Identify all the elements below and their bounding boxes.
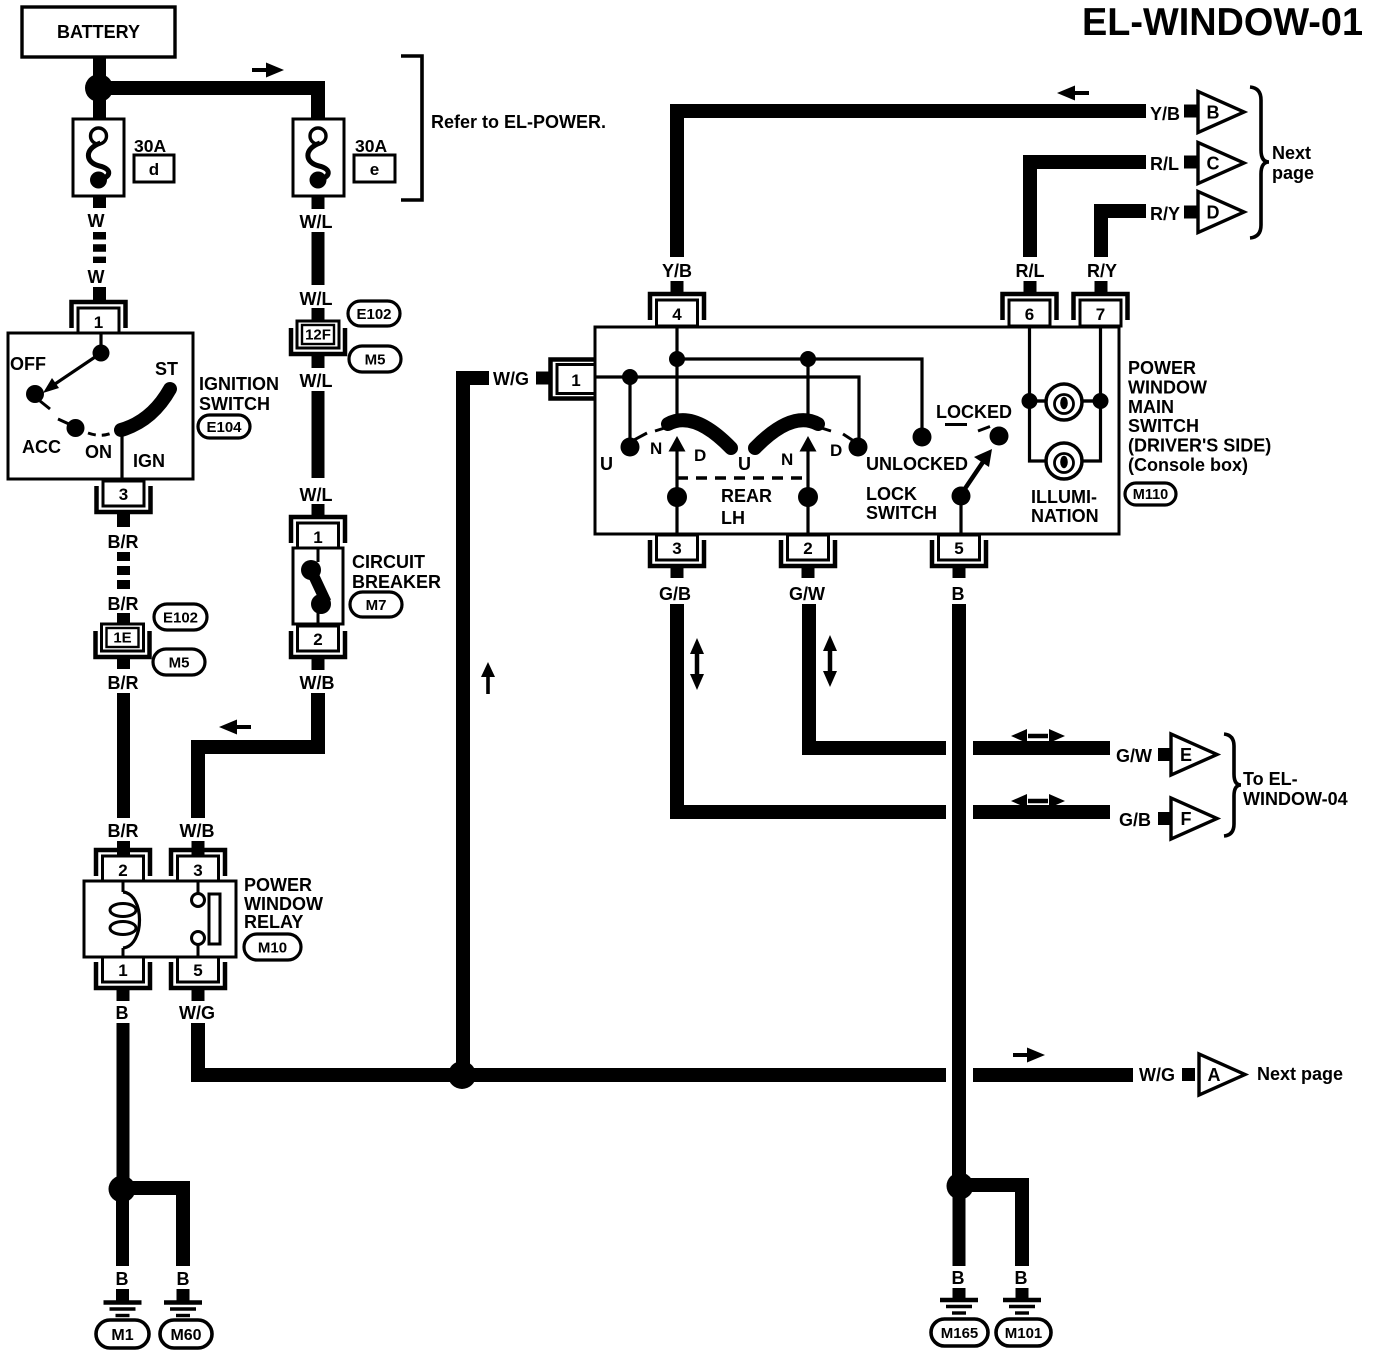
svg-text:IGNITION: IGNITION — [199, 374, 279, 394]
svg-text:POWER: POWER — [1128, 358, 1196, 378]
label W/L — [300, 289, 333, 309]
svg-text:M101: M101 — [1005, 1325, 1043, 1342]
stub square — [1184, 206, 1197, 219]
dashed contact arc ACC-ON — [88, 432, 114, 435]
wire — [312, 504, 325, 518]
power window relay M10 box — [84, 881, 236, 957]
connector 4 (main switch) — [650, 294, 704, 326]
connector 1 (main switch) — [551, 360, 596, 399]
label W — [88, 267, 105, 287]
oval M7 — [350, 592, 402, 617]
svg-text:ILLUMI-: ILLUMI- — [1031, 487, 1097, 507]
svg-text:LOCKED: LOCKED — [936, 402, 1012, 422]
svg-text:WINDOW-04: WINDOW-04 — [1243, 789, 1348, 809]
arrow double horizontal on G/B — [1011, 794, 1065, 808]
label B/R — [108, 673, 139, 693]
connector 1E — [96, 624, 150, 657]
oval M101 — [996, 1319, 1051, 1346]
svg-text:NATION: NATION — [1031, 506, 1099, 526]
connector 2 (relay) — [96, 850, 150, 882]
label W/G — [1139, 1065, 1175, 1085]
svg-text:ACC: ACC — [22, 437, 61, 457]
svg-text:3: 3 — [193, 861, 202, 880]
power window main switch box — [595, 327, 1119, 534]
svg-text:M5: M5 — [365, 351, 386, 368]
oval M165 — [931, 1319, 988, 1346]
label B — [177, 1269, 190, 1289]
label LOCK SWITCH — [866, 484, 937, 523]
brace to EL-WINDOW-04 — [1224, 734, 1241, 836]
svg-text:POWER: POWER — [244, 875, 312, 895]
label G/B — [1119, 810, 1151, 830]
label D — [694, 446, 706, 465]
svg-text:3: 3 — [119, 485, 128, 504]
connector 5 (relay) — [171, 957, 225, 988]
label R/Y — [1150, 204, 1180, 224]
contact N1 arrow — [669, 366, 686, 534]
wire — [312, 655, 325, 670]
contact UNLOCKED — [913, 428, 932, 447]
wire R/Y — [1101, 211, 1146, 257]
label POWER WINDOW RELAY — [244, 875, 323, 932]
oval E102 — [348, 301, 400, 326]
wire Y/B — [677, 111, 1146, 257]
svg-text:1: 1 — [94, 313, 103, 332]
svg-text:Y/B: Y/B — [1150, 104, 1180, 124]
svg-text:SWITCH: SWITCH — [866, 503, 937, 523]
wire — [802, 565, 815, 578]
label W/L — [300, 485, 333, 505]
svg-text:d: d — [149, 160, 159, 179]
svg-text:M1: M1 — [111, 1327, 133, 1344]
svg-text:M10: M10 — [258, 939, 287, 956]
svg-text:6: 6 — [1025, 305, 1034, 324]
svg-text:M165: M165 — [941, 1325, 979, 1342]
fuse e 30A — [293, 119, 395, 196]
wire — [671, 281, 684, 294]
label D — [830, 441, 842, 460]
node rear-LH 1 — [667, 487, 687, 507]
svg-text:To EL-: To EL- — [1243, 769, 1298, 789]
svg-text:B: B — [177, 1269, 190, 1289]
svg-text:M60: M60 — [170, 1327, 201, 1344]
wire pin7 drop — [1083, 328, 1101, 461]
svg-text:5: 5 — [193, 961, 202, 980]
junction B — [109, 1176, 136, 1203]
svg-text:ST: ST — [155, 359, 178, 379]
contact U1 — [621, 433, 648, 457]
svg-text:30A: 30A — [134, 136, 166, 156]
svg-text:WINDOW: WINDOW — [244, 894, 323, 914]
connector 2 (circuit breaker) — [291, 626, 345, 657]
wire — [312, 308, 325, 321]
triangle F to EL-WINDOW-04 — [1171, 798, 1217, 839]
connector 7 (main switch) — [1074, 294, 1128, 326]
svg-text:SWITCH: SWITCH — [199, 394, 270, 414]
svg-text:R/L: R/L — [1016, 261, 1045, 281]
wire — [116, 1289, 129, 1301]
label N — [781, 450, 793, 469]
label Next page — [1272, 143, 1314, 183]
svg-text:UNLOCKED: UNLOCKED — [866, 454, 968, 474]
svg-text:e: e — [370, 160, 379, 179]
wire pin4 node — [675, 328, 678, 352]
svg-text:30A: 30A — [355, 136, 387, 156]
svg-text:B: B — [1207, 103, 1220, 123]
label POWER WINDOW MAIN SWITCH — [1128, 358, 1271, 475]
wire IGN to pin 3 — [120, 431, 123, 478]
wire — [177, 1289, 190, 1301]
svg-text:E102: E102 — [163, 609, 198, 626]
oval M10 — [244, 934, 301, 960]
svg-text:D: D — [830, 441, 842, 460]
label Next page — [1257, 1064, 1343, 1084]
brace next page — [1250, 87, 1269, 238]
svg-text:E102: E102 — [356, 306, 391, 323]
wire — [312, 232, 325, 285]
triangle E to EL-WINDOW-04 — [1171, 734, 1217, 775]
svg-text:B/R: B/R — [108, 594, 139, 614]
svg-text:OFF: OFF — [10, 354, 46, 374]
label R/L — [1016, 261, 1045, 281]
svg-text:CIRCUIT: CIRCUIT — [352, 552, 425, 572]
svg-text:R/L: R/L — [1150, 154, 1179, 174]
connector 1 (ignition switch) — [72, 302, 126, 334]
stub square — [1184, 105, 1197, 118]
svg-text:M110: M110 — [1133, 487, 1168, 503]
label W/L — [300, 212, 333, 232]
svg-text:U: U — [738, 454, 751, 474]
svg-text:REAR: REAR — [721, 486, 772, 506]
label G/W — [1116, 746, 1152, 766]
connector 1 (relay) — [96, 957, 150, 988]
svg-text:B: B — [1015, 1268, 1028, 1288]
connector 3 (main switch) — [650, 535, 704, 566]
rocker arc 1 — [655, 420, 731, 448]
svg-text:1: 1 — [118, 961, 127, 980]
mechanical link dashed — [677, 476, 808, 480]
svg-text:2: 2 — [118, 861, 127, 880]
wire — [93, 287, 106, 304]
stub square — [1158, 812, 1171, 825]
svg-text:Y/B: Y/B — [662, 261, 692, 281]
oval M5 — [153, 649, 205, 675]
svg-text:U: U — [600, 454, 613, 474]
wire R/L — [1030, 162, 1146, 257]
arrow up on W/G — [481, 662, 495, 694]
rocker arc 2 — [755, 420, 831, 448]
svg-text:W/L: W/L — [300, 289, 333, 309]
connector 5 (main switch) — [932, 535, 986, 566]
triangle A next page — [1199, 1054, 1245, 1095]
label B/R — [108, 532, 139, 552]
wire G/W — [809, 604, 1110, 748]
svg-text:BREAKER: BREAKER — [352, 572, 441, 592]
label U — [738, 454, 751, 474]
triangle C next page — [1198, 143, 1244, 184]
wire — [312, 196, 325, 209]
junction B main switch — [947, 1173, 974, 1200]
svg-text:G/W: G/W — [1116, 746, 1152, 766]
stub square — [1184, 156, 1197, 169]
svg-text:E104: E104 — [206, 419, 242, 436]
wire — [1024, 281, 1037, 294]
contact BAT (ignition) — [93, 345, 110, 362]
wire — [953, 1288, 966, 1299]
svg-text:page: page — [1272, 163, 1314, 183]
svg-text:W: W — [88, 267, 105, 287]
svg-text:WINDOW: WINDOW — [1128, 378, 1207, 398]
oval M5 — [349, 346, 401, 372]
arrow double vertical on G/B — [690, 638, 704, 690]
fuse d 30A — [73, 119, 174, 196]
wire — [117, 657, 130, 669]
bracket refer to EL-POWER — [401, 56, 422, 200]
wire G/B — [677, 604, 1110, 812]
arrow right on W/G — [1013, 1048, 1045, 1063]
wire branch to M101 — [960, 1185, 1022, 1266]
svg-text:B: B — [952, 1268, 965, 1288]
lamp 2 — [1046, 443, 1082, 479]
svg-text:BATTERY: BATTERY — [57, 22, 140, 42]
svg-text:R/Y: R/Y — [1087, 261, 1117, 281]
wire — [953, 1192, 966, 1266]
svg-text:M7: M7 — [366, 597, 387, 614]
wire — [1095, 281, 1108, 294]
wire — [93, 196, 106, 208]
wire branch to M60 — [122, 1188, 183, 1266]
relay coil — [110, 882, 140, 956]
svg-text:Refer to EL-POWER.: Refer to EL-POWER. — [431, 112, 606, 132]
label W/B — [180, 821, 215, 841]
label R/Y — [1087, 261, 1117, 281]
svg-text:W/B: W/B — [300, 673, 335, 693]
connector 6 (main switch) — [1003, 294, 1057, 326]
wire — [953, 565, 966, 578]
label B/R — [108, 594, 139, 614]
ignition switch E104 box — [8, 333, 193, 479]
ground M101 — [1003, 1300, 1041, 1313]
wire — [671, 565, 684, 578]
label B — [952, 584, 965, 604]
wire — [117, 1023, 130, 1180]
svg-text:B: B — [952, 584, 965, 604]
svg-text:W/B: W/B — [180, 821, 215, 841]
oval M110 — [1125, 483, 1176, 505]
svg-text:B/R: B/R — [108, 821, 139, 841]
svg-text:RELAY: RELAY — [244, 912, 303, 932]
svg-text:3: 3 — [672, 539, 681, 558]
wire — [117, 552, 130, 590]
svg-text:(DRIVER'S SIDE): (DRIVER'S SIDE) — [1128, 436, 1271, 456]
svg-text:B/R: B/R — [108, 673, 139, 693]
svg-text:1E: 1E — [113, 630, 131, 647]
label IGN — [133, 451, 165, 471]
wire — [93, 57, 106, 122]
svg-text:B: B — [116, 1269, 129, 1289]
node pin4-line — [669, 351, 685, 367]
svg-text:G/W: G/W — [789, 584, 825, 604]
label B — [1015, 1268, 1028, 1288]
label B/R — [108, 821, 139, 841]
svg-text:N: N — [650, 439, 662, 458]
svg-text:IGN: IGN — [133, 451, 165, 471]
label B — [116, 1003, 129, 1023]
label W/G — [179, 1003, 215, 1023]
lock switch lever — [960, 449, 992, 496]
svg-text:1: 1 — [313, 528, 322, 547]
wire — [99, 88, 318, 122]
svg-text:W: W — [88, 211, 105, 231]
label W/B — [300, 673, 335, 693]
node rear-LH 2 — [798, 487, 818, 507]
svg-text:7: 7 — [1096, 305, 1105, 324]
label ILLUMINATION — [1031, 487, 1099, 526]
ground M60 — [164, 1303, 202, 1316]
contact N2 arrow — [800, 366, 817, 534]
svg-text:2: 2 — [803, 539, 812, 558]
svg-text:M5: M5 — [169, 654, 190, 671]
svg-text:G/B: G/B — [659, 584, 691, 604]
label W/L — [300, 371, 333, 391]
lamp 1 — [1036, 384, 1094, 420]
arrow double horizontal on G/W — [1011, 729, 1065, 743]
contact LOCKED — [978, 427, 1009, 446]
stub square — [1158, 748, 1171, 761]
contact D2 — [843, 434, 868, 457]
label W/G — [493, 369, 529, 389]
svg-text:W/L: W/L — [300, 371, 333, 391]
wire — [312, 354, 325, 368]
svg-text:W/G: W/G — [493, 369, 529, 389]
label G/B — [659, 584, 691, 604]
wiper arrow OFF — [43, 353, 101, 393]
svg-text:W/L: W/L — [300, 485, 333, 505]
label LOCKED — [936, 402, 1012, 425]
label N — [650, 439, 662, 458]
wire — [192, 841, 205, 856]
wire pin6 drop — [1030, 328, 1046, 461]
arrow right on battery feed — [252, 63, 284, 78]
svg-text:2: 2 — [313, 630, 322, 649]
wire W/G vertical — [463, 378, 489, 1075]
arrow left on W/B — [219, 720, 251, 735]
svg-text:C: C — [1207, 154, 1220, 174]
label To EL-WINDOW-04 — [1243, 769, 1348, 809]
svg-text:G/B: G/B — [1119, 810, 1151, 830]
label OFF — [10, 354, 46, 374]
connector 1 (circuit breaker) — [291, 517, 345, 549]
stub square — [536, 372, 549, 385]
contact lock pivot — [952, 487, 971, 535]
lower bus line — [595, 377, 859, 438]
wire — [117, 512, 130, 527]
label Y/B — [662, 261, 692, 281]
svg-text:ON: ON — [85, 442, 112, 462]
svg-text:B: B — [116, 1003, 129, 1023]
svg-text:5: 5 — [954, 539, 963, 558]
svg-text:Next: Next — [1272, 143, 1311, 163]
wire — [93, 232, 106, 263]
svg-text:(Console box): (Console box) — [1128, 455, 1248, 475]
wire — [628, 377, 631, 439]
oval M60 — [160, 1320, 212, 1348]
oval E104 — [198, 415, 250, 438]
node U1 — [622, 369, 638, 385]
label Refer to EL-POWER. — [431, 112, 606, 132]
svg-text:R/Y: R/Y — [1150, 204, 1180, 224]
connector 2 (main switch) — [781, 535, 835, 566]
wire — [117, 988, 130, 1001]
wire — [117, 613, 130, 624]
label ON — [85, 442, 112, 462]
svg-text:LH: LH — [721, 508, 745, 528]
svg-text:SWITCH: SWITCH — [1128, 416, 1199, 436]
svg-text:W/G: W/G — [179, 1003, 215, 1023]
node lamp1 left — [1022, 393, 1038, 409]
ground M1 — [104, 1303, 142, 1316]
node lamp1 right — [1093, 393, 1109, 409]
ground M165 — [940, 1300, 978, 1313]
connector 3 (relay) — [171, 850, 225, 882]
label ST — [155, 359, 178, 379]
connector 12F — [291, 321, 345, 354]
stub square — [1182, 1068, 1195, 1081]
upper bus line — [677, 359, 922, 428]
label U — [600, 454, 613, 474]
battery — [22, 7, 175, 57]
label R/L — [1150, 154, 1179, 174]
wire — [116, 1195, 129, 1266]
title EL-WINDOW-01 — [1082, 1, 1363, 44]
wire — [192, 988, 205, 1001]
svg-text:LOCK: LOCK — [866, 484, 917, 504]
label REAR LH — [721, 486, 772, 528]
triangle B next page — [1198, 92, 1244, 133]
label ACC — [22, 437, 61, 457]
label B — [952, 1268, 965, 1288]
label Y/B — [1150, 104, 1180, 124]
label IGNITION SWITCH — [199, 374, 279, 414]
junction W/G — [448, 1061, 476, 1089]
arrow left on Y/B — [1057, 86, 1089, 101]
junction battery feed — [85, 74, 113, 102]
label G/W — [789, 584, 825, 604]
svg-text:A: A — [1208, 1065, 1221, 1085]
rotor arc IGN-ST — [121, 389, 170, 430]
svg-text:EL-WINDOW-01: EL-WINDOW-01 — [1082, 1, 1363, 44]
svg-text:MAIN: MAIN — [1128, 397, 1174, 417]
label W — [88, 211, 105, 231]
contact ACC — [58, 419, 85, 437]
circuit breaker M7 body — [293, 548, 343, 624]
svg-text:D: D — [694, 446, 706, 465]
arrow double vertical on G/W — [823, 635, 837, 687]
svg-text:Next page: Next page — [1257, 1064, 1343, 1084]
label UNLOCKED — [866, 454, 968, 474]
svg-text:E: E — [1180, 745, 1192, 765]
wire W/B to relay — [198, 693, 318, 818]
svg-text:F: F — [1181, 809, 1192, 829]
wire B — [952, 604, 966, 1180]
wire W/G horizontal — [198, 1023, 1133, 1075]
svg-text:D: D — [1207, 203, 1220, 223]
wire — [1016, 1288, 1029, 1299]
svg-text:W/G: W/G — [1139, 1065, 1175, 1085]
svg-text:W/L: W/L — [300, 212, 333, 232]
contact OFF — [26, 385, 50, 409]
svg-text:B/R: B/R — [108, 532, 139, 552]
